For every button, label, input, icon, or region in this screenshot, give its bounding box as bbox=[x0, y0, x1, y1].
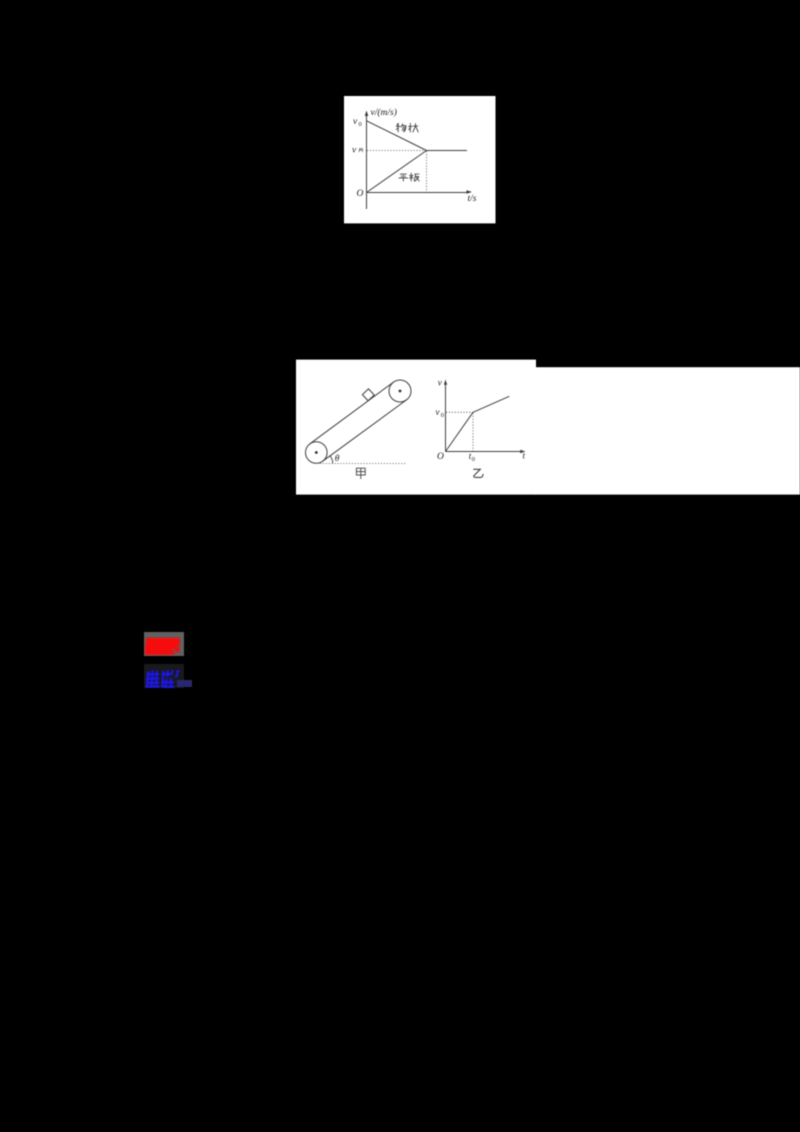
dotted guide to v_common bbox=[367, 150, 426, 152]
x axis arrow bbox=[467, 190, 473, 194]
svg-text:v/(m/s): v/(m/s) bbox=[371, 107, 397, 118]
line of block (descending) bbox=[367, 121, 427, 151]
t axis of graph 乙 bbox=[446, 451, 523, 453]
v axis of graph 乙 bbox=[445, 383, 447, 452]
blue analysis label block bbox=[144, 664, 184, 688]
svg-text:θ: θ bbox=[335, 454, 340, 464]
common-velocity horizontal line bbox=[427, 150, 468, 152]
subscript 共 bbox=[359, 148, 364, 152]
block on belt bbox=[362, 389, 374, 401]
label 平板 (plank) bbox=[399, 173, 420, 182]
x axis bbox=[367, 192, 470, 194]
svg-text:0: 0 bbox=[441, 412, 444, 419]
label 甲 bbox=[356, 468, 365, 479]
shallow segment after t0 bbox=[473, 396, 509, 412]
y axis bbox=[366, 114, 368, 210]
panel 2 : conveyor belt (甲) and v-t graph (乙) bbox=[296, 359, 800, 495]
svg-text:v: v bbox=[436, 407, 440, 417]
lower pulley bbox=[306, 442, 328, 464]
upper pulley bbox=[389, 380, 411, 402]
label 乙 bbox=[473, 469, 483, 477]
dotted guide down to t axis bbox=[426, 151, 428, 192]
svg-text:t/s: t/s bbox=[468, 194, 477, 204]
angle arc bbox=[330, 456, 333, 464]
dashed horizontal base line bbox=[320, 463, 406, 465]
svg-text:v: v bbox=[438, 378, 442, 388]
svg-text:O: O bbox=[357, 189, 364, 199]
red answer label block bbox=[144, 632, 184, 656]
belt upper tangent bbox=[310, 382, 394, 444]
svg-text:0: 0 bbox=[472, 456, 475, 463]
belt lower tangent bbox=[323, 400, 407, 461]
svg-text:0: 0 bbox=[359, 121, 362, 128]
label 物块 (block) bbox=[396, 123, 419, 132]
dotted guides at v0,t0 bbox=[446, 412, 473, 451]
steep segment to (t0,v0) bbox=[446, 412, 474, 451]
y axis arrow bbox=[365, 111, 369, 117]
svg-text:O: O bbox=[437, 452, 444, 462]
line of plank (ascending) bbox=[367, 151, 427, 193]
panel 1 : v-t graph of block and plank bbox=[344, 96, 496, 224]
navy rectangle tail bbox=[177, 680, 192, 687]
